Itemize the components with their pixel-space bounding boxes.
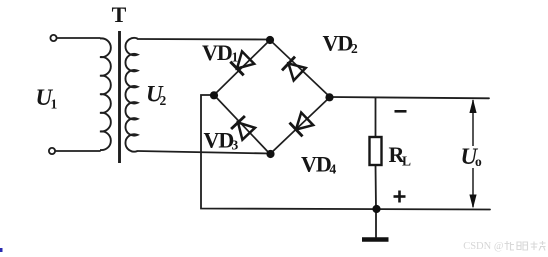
svg-text:2: 2	[351, 41, 358, 56]
svg-text:1: 1	[232, 50, 239, 65]
svg-text:VD: VD	[202, 40, 232, 65]
svg-text:o: o	[475, 154, 482, 169]
svg-text:4: 4	[330, 162, 337, 177]
svg-text:3: 3	[232, 138, 239, 153]
svg-text:T: T	[112, 2, 127, 27]
svg-text:1: 1	[51, 97, 58, 112]
svg-text:2: 2	[160, 93, 167, 108]
svg-text:VD: VD	[204, 128, 234, 153]
svg-text:CSDN @: CSDN @	[463, 241, 504, 252]
svg-text:VD: VD	[323, 31, 353, 56]
svg-text:L: L	[402, 154, 411, 169]
svg-text:VD: VD	[301, 152, 331, 177]
